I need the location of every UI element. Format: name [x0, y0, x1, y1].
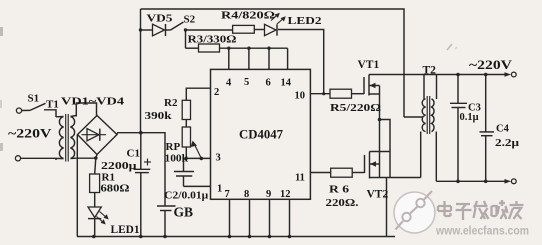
label RP [166, 141, 181, 153]
pin 3 label [216, 153, 221, 164]
wire left riser from bridge plus rail to top rail [140, 9, 142, 133]
node junction pin3 left [184, 157, 188, 161]
resistor R4 [233, 25, 265, 33]
label C4 [496, 124, 510, 135]
wire R4 branch [186, 29, 234, 31]
svg-text:S2: S2 [184, 14, 196, 26]
svg-text:C4: C4 [496, 124, 510, 135]
label VD1-VD4 [61, 96, 125, 108]
switch S1 [22, 103, 46, 110]
svg-text:LED2: LED2 [288, 15, 323, 27]
svg-text:R 6: R 6 [329, 184, 350, 196]
wire IC bottom pins 7 8 9 12 [230, 199, 290, 236]
node junction C1 top [139, 131, 143, 135]
node junctions on pin feeder bus [227, 47, 271, 50]
svg-text:10: 10 [295, 91, 306, 102]
wire T1 secondary top to bridge [76, 103, 96, 117]
pin number labels top [226, 77, 292, 89]
wire plus rail to battery [117, 133, 165, 206]
wire VT1 source column [379, 86, 381, 178]
LED LED1 [88, 207, 109, 237]
svg-text:4: 4 [226, 78, 232, 89]
svg-text:390k: 390k [145, 110, 173, 122]
terminal output bottom [505, 179, 517, 184]
svg-text:11: 11 [295, 173, 305, 184]
wire R3 branch drop [186, 30, 199, 48]
wire output bottom [436, 180, 506, 182]
wire pin 3 [186, 157, 211, 159]
svg-text:R3/330Ω: R3/330Ω [188, 35, 237, 46]
svg-text:LED1: LED1 [111, 224, 140, 236]
svg-text:VD5: VD5 [147, 13, 174, 25]
svg-text:3: 3 [216, 153, 221, 164]
bridge rectifier VD1-VD4 [78, 116, 118, 155]
label output 220V [469, 58, 512, 72]
label R5 220 ohm [330, 103, 381, 114]
capacitor C1 electrolytic [134, 133, 152, 237]
terminal input top [16, 108, 21, 113]
resistor R3 [199, 44, 288, 52]
label VD5 [147, 13, 174, 25]
label R3 330 ohm [188, 35, 237, 46]
label T2 [423, 65, 437, 77]
label 2.2u [495, 138, 519, 149]
svg-text:VT1: VT1 [358, 59, 380, 71]
resistor R1 [90, 174, 100, 207]
label VT2 [367, 189, 389, 201]
svg-text:680Ω: 680Ω [101, 183, 130, 195]
svg-text:100k: 100k [165, 152, 189, 164]
wire center tap from top rail [404, 116, 423, 118]
wire VT2 source to ground [370, 178, 421, 237]
svg-text:S1: S1 [28, 93, 40, 105]
wire pins 4 5 6 14 feeders [229, 48, 288, 69]
capacitor C2 [174, 158, 194, 186]
svg-text:14: 14 [281, 78, 292, 89]
wire T2 primary bottom riser [420, 132, 422, 178]
label R1 [102, 172, 115, 184]
svg-text:12: 12 [280, 189, 291, 200]
svg-text:www.elecfans.com: www.elecfans.com [435, 226, 529, 238]
svg-text:T2: T2 [423, 65, 437, 77]
node junction after S2 [184, 28, 187, 31]
svg-text:6: 6 [266, 78, 271, 89]
svg-text:VD1~VD4: VD1~VD4 [61, 96, 125, 108]
node junction bridge bottom [94, 155, 98, 175]
pin 1 label [217, 184, 222, 195]
battery GB [157, 206, 176, 237]
svg-text:C2/0.01μ: C2/0.01μ [164, 190, 209, 202]
watermark url text [435, 226, 529, 238]
transistor Q2 VT2 mosfet [365, 152, 391, 179]
label 0.1u [460, 112, 479, 123]
svg-text:T1: T1 [46, 99, 59, 111]
pin 2 label [214, 87, 219, 98]
svg-text:~220V: ~220V [8, 127, 52, 141]
svg-text:9: 9 [266, 189, 271, 200]
label 390k [145, 110, 173, 122]
switch S2 [171, 22, 184, 30]
svg-text:0.1μ: 0.1μ [460, 112, 479, 123]
wire bottom terminal to T1 primary [21, 158, 56, 160]
label C3 [468, 103, 481, 114]
wire pin 2 to R2 [186, 88, 210, 100]
svg-text:R5/220Ω: R5/220Ω [330, 103, 381, 114]
label C2 0.01u [164, 190, 209, 202]
svg-text:R4/820Ω: R4/820Ω [221, 11, 275, 22]
label T1 [46, 99, 59, 111]
label S2 [184, 14, 196, 26]
pin 11 label [295, 173, 305, 184]
watermark logo circle [394, 191, 435, 233]
wire bridge minus to ground rail [76, 135, 78, 237]
node junctions on ground rail [92, 235, 291, 239]
svg-text:2200μ: 2200μ [101, 160, 137, 172]
wire S1 to T1 primary [44, 110, 56, 117]
diode VD5 [153, 24, 171, 36]
node junction pin3 wiper [200, 157, 204, 161]
svg-text:GB: GB [174, 205, 194, 220]
wire bridge plus to C1 rail [116, 133, 118, 135]
wire VD5 anode [141, 29, 153, 31]
label 220 ohm [326, 197, 359, 209]
label S1 [28, 93, 40, 105]
svg-text:RP: RP [166, 141, 181, 153]
svg-text:8: 8 [244, 189, 249, 200]
svg-text:2.2μ: 2.2μ [495, 138, 519, 149]
op-amp U1 CD4047 IC body [211, 69, 311, 199]
svg-text:C1: C1 [127, 148, 140, 160]
svg-text:~220V: ~220V [469, 58, 512, 72]
wire top supply rail [141, 9, 405, 117]
node junction center tap column [378, 118, 382, 122]
label R2 [164, 97, 178, 109]
label R6 [329, 184, 350, 196]
svg-text:7: 7 [225, 189, 230, 200]
node junction VD5 tap [139, 28, 142, 31]
resistor R5 [330, 89, 364, 98]
label 680 ohm [101, 183, 130, 195]
svg-text:5: 5 [244, 77, 249, 88]
terminal output top [505, 72, 517, 77]
label 100k [165, 152, 189, 164]
transformer T2 [422, 75, 436, 182]
wire LED2 cathode to pin10 node [278, 30, 325, 96]
svg-text:VT2: VT2 [367, 189, 389, 201]
wire VT1 drain to output top rail [369, 74, 507, 76]
terminal input bottom [15, 156, 20, 161]
label LED2 [288, 15, 323, 27]
capacitor C4 [480, 75, 495, 182]
label input 220V [8, 127, 52, 141]
pin number labels bottom [225, 189, 291, 200]
node junctions output rails [456, 73, 487, 183]
resistor R6 [331, 168, 365, 177]
watermark chinese text dianzi fashaoyou [438, 200, 524, 220]
svg-text:2: 2 [214, 87, 219, 98]
label CD4047 [239, 127, 283, 142]
transformer T1 [56, 114, 76, 162]
label VT1 [358, 59, 380, 71]
wire T1 secondary bottom to bridge [76, 157, 96, 159]
svg-text:220Ω.: 220Ω. [326, 197, 359, 209]
potentiometer RP [182, 127, 201, 158]
scan smudge marks [0, 27, 457, 151]
wire pin 10 to R5 [310, 93, 330, 95]
svg-text:R2: R2 [164, 97, 178, 109]
label LED1 [111, 224, 140, 236]
label C1 [127, 148, 140, 160]
wire C2 to pin 1 [184, 185, 211, 187]
pin 10 label [295, 91, 306, 102]
transistor Q1 VT1 mosfet [364, 75, 380, 96]
label GB [174, 205, 194, 220]
svg-text:CD4047: CD4047 [239, 127, 283, 142]
svg-text:1: 1 [217, 184, 222, 195]
wire jog to VT2 drain riser [380, 120, 391, 178]
capacitor C3 [450, 75, 467, 182]
LED LED2 [265, 13, 286, 36]
label 2200u [101, 160, 137, 172]
resistor R2 [182, 100, 190, 127]
label R4 820 ohm [221, 11, 275, 22]
ground rail bottom [77, 236, 395, 238]
wire pin 11 to R6 [310, 172, 330, 174]
